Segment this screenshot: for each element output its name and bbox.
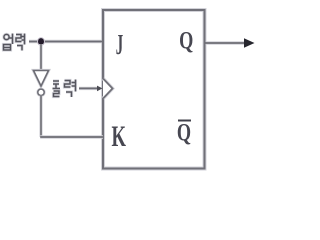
svg-text:Q: Q — [177, 119, 191, 146]
clock chevron on U1 left edge — [103, 79, 113, 99]
svg-text:K: K — [112, 121, 127, 153]
label input (Korean 입력) — [4, 34, 25, 51]
input wire to J — [29, 40, 102, 44]
Q output arrowhead — [244, 38, 255, 48]
clock wire arrowhead — [97, 86, 103, 92]
svg-text:J: J — [116, 29, 123, 60]
svg-text:Q: Q — [179, 27, 193, 54]
Q output wire — [206, 41, 247, 45]
inverter triangle — [34, 71, 49, 87]
flip-flop U1 body — [103, 10, 205, 169]
wire from bubble down — [39, 96, 42, 137]
junction node dot — [37, 37, 45, 46]
overbar of Q-bar — [178, 120, 191, 122]
wire to K input — [40, 135, 103, 139]
wire from node down to inverter — [39, 44, 42, 70]
clock wire to chevron — [79, 87, 99, 90]
inverter bubble — [38, 89, 44, 95]
label clock (Korean 클럭) — [53, 80, 76, 98]
